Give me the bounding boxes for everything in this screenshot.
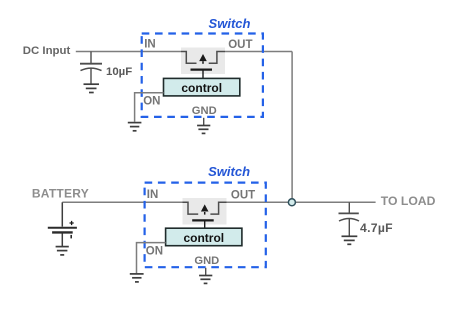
svg-text:GND: GND (194, 255, 219, 267)
svg-text:control: control (183, 231, 224, 245)
pin label IN (switch 1) (144, 39, 156, 51)
wire node to load (292, 201, 376, 203)
pin label GND (switch 2) (194, 255, 219, 267)
svg-text:BATTERY: BATTERY (32, 187, 89, 201)
switch block 2 title Switch (208, 164, 250, 179)
wire ON pin to ground (switch 1) (135, 93, 164, 122)
svg-text:IN: IN (147, 189, 159, 201)
battery BT1 (48, 202, 77, 246)
wire vertical OUT drop to node (291, 52, 293, 203)
svg-text:OUT: OUT (228, 39, 252, 51)
ground under ON wire (switch 1) (128, 123, 142, 131)
svg-text:Switch: Switch (209, 16, 251, 31)
wire ON pin to ground (switch 2) (137, 243, 166, 274)
svg-text:DC Input: DC Input (23, 45, 71, 57)
pin label IN (switch 2) (147, 189, 159, 201)
wire battery to switch2 IN (62, 201, 188, 203)
ground under battery (56, 247, 69, 255)
ground under GND pin (switch 2) (199, 276, 212, 284)
pin label ON (switch 2) (146, 246, 163, 258)
svg-text:4.7µF: 4.7µF (360, 221, 393, 235)
svg-text:10µF: 10µF (106, 66, 132, 78)
svg-text:ON: ON (143, 95, 160, 107)
svg-text:control: control (181, 81, 222, 95)
svg-text:GND: GND (192, 105, 217, 117)
svg-text:TO LOAD: TO LOAD (381, 194, 436, 208)
control block (switch 1) (164, 78, 240, 96)
ground under C1 (84, 84, 100, 92)
ground under GND pin (switch 1) (197, 126, 210, 134)
transistor Q2 pass FET (switch 2) (183, 198, 227, 229)
wire DC Input to switch1 IN (76, 51, 187, 53)
pin label GND (switch 1) (192, 105, 217, 117)
value label 4.7uF (360, 221, 393, 235)
svg-text:ON: ON (146, 246, 163, 258)
control block (switch 2) (166, 228, 242, 246)
capacitor C2 4.7uF (339, 202, 360, 235)
transistor Q1 pass FET (switch 1) (181, 48, 225, 79)
switch block 2 dashed box (145, 183, 266, 268)
switch block 1 dashed box (142, 34, 263, 117)
switch block 1 title Switch (209, 16, 251, 31)
svg-text:OUT: OUT (231, 189, 255, 201)
label BATTERY (32, 187, 89, 201)
pin label OUT (switch 1) (228, 39, 252, 51)
ground under C2 (342, 236, 358, 244)
wire switch1 OUT to vertical drop (217, 51, 292, 53)
svg-text:IN: IN (144, 39, 156, 51)
node output junction (288, 199, 295, 206)
wire GND pin stem (switch 1) (203, 118, 205, 125)
svg-text:Switch: Switch (208, 164, 250, 179)
value label 10uF (106, 66, 132, 78)
pin label OUT (switch 2) (231, 189, 255, 201)
capacitor C1 10uF (80, 52, 102, 84)
wire switch2 OUT to node (219, 201, 293, 203)
label DC Input (23, 45, 71, 57)
pin label ON (switch 1) (143, 95, 160, 107)
ground under ON wire (switch 2) (130, 274, 144, 282)
label TO LOAD (381, 194, 436, 208)
wire GND pin stem (switch 2) (205, 268, 207, 275)
